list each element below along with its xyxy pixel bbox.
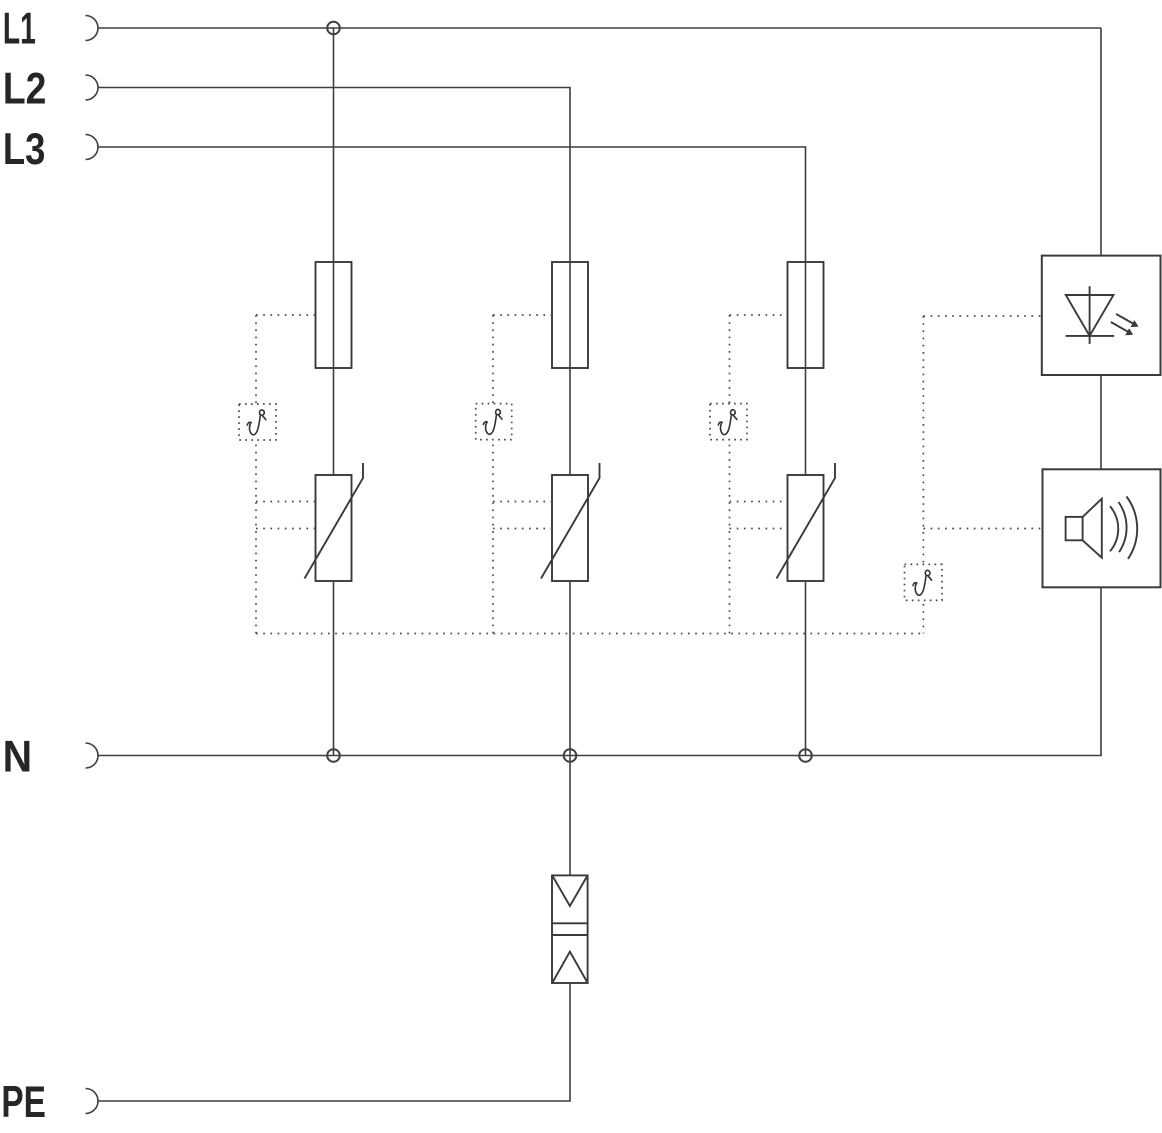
wire L2 horizontal: [98, 87, 571, 89]
wire F2 to varistor RV2: [569, 368, 571, 475]
speaker driver rect: [1066, 517, 1083, 540]
dotted signal link branch 3: vertical: [729, 315, 731, 634]
wire RV2 to N: [569, 581, 571, 756]
wire RV1 to N: [333, 581, 335, 756]
dotted signal link branch 3: stub to varistor upper: [730, 501, 788, 503]
svg-text:L1: L1: [3, 5, 36, 54]
wire branch3 L3 to fuse F3: [805, 147, 807, 262]
speaker cone: [1083, 499, 1102, 558]
varistor RV1: [305, 463, 364, 581]
wire speaker box to N: [1100, 587, 1102, 755]
terminal L3: [86, 134, 99, 159]
dotted signal link branch 1: top stub: [256, 314, 316, 316]
terminal L1: [86, 16, 98, 41]
sound arc 1: [1110, 506, 1118, 551]
varistor RV3: [777, 463, 836, 581]
svg-text:N: N: [3, 733, 32, 782]
spark gap N-PE body: [552, 875, 588, 983]
wire inside fuse F1: [333, 262, 335, 368]
acoustic alarm box H2: [1043, 469, 1161, 587]
thermal disconnect glyph branch 3: [718, 410, 737, 435]
svg-text:PE: PE: [1, 1078, 46, 1127]
thermal disconnect glyph branch 2: [483, 409, 502, 434]
spark gap divider line lower: [552, 934, 588, 936]
fuse F1: [316, 262, 352, 368]
wire inside fuse F2: [569, 262, 571, 368]
thermal disconnect box branch 1: [239, 404, 276, 440]
LED indicator box H1: [1042, 256, 1161, 375]
wire L1 horizontal: [98, 27, 1101, 29]
wire L3 horizontal: [98, 146, 806, 148]
LED symbol: cathode bar: [1066, 335, 1115, 337]
thermal disconnect box branch 2: [476, 404, 512, 440]
dotted signal link branch 1: stub to varistor upper: [256, 501, 316, 503]
terminal PE: [86, 1089, 99, 1114]
junction on N at branch 3: [799, 749, 812, 762]
spark gap lower electrode: [553, 952, 587, 982]
dotted signal link branch 3: top stub: [730, 314, 788, 316]
junction on N at branch 1: [327, 749, 340, 762]
varistor RV2: [541, 463, 600, 581]
wire F3 to varistor RV3: [805, 368, 807, 475]
dotted signal link remote: vertical: [922, 316, 924, 634]
sound arc 3: [1127, 497, 1138, 559]
wire spark gap to PE: [569, 984, 571, 1102]
thermal disconnect box branch 3: [710, 404, 747, 440]
terminal N: [86, 743, 98, 768]
svg-text:L3: L3: [3, 125, 46, 174]
dotted signal link branch 2: stub to varistor upper: [493, 501, 552, 503]
dotted signal link branch 1: vertical: [255, 315, 257, 634]
dotted signal link branch 1: stub to varistor lower: [256, 528, 316, 530]
wire LED box to speaker box: [1100, 375, 1102, 469]
LED symbol: vertical lead: [1089, 286, 1091, 344]
wire N to spark gap: [569, 756, 571, 876]
sound arc 2: [1119, 502, 1127, 552]
thermal disconnect box remote: [905, 564, 943, 600]
dotted signal link branch 2: vertical: [492, 315, 494, 634]
wire inside fuse F3: [805, 262, 807, 368]
junction on L1 at branch 1: [327, 22, 340, 35]
wire F1 to varistor RV1: [333, 368, 335, 475]
fuse F2: [552, 262, 588, 368]
dotted signal link branch 2: stub to varistor lower: [493, 528, 552, 530]
thermal disconnect glyph branch 1: [247, 410, 266, 435]
wire branch2 L2 to fuse F2: [569, 88, 571, 263]
LED symbol: triangle: [1066, 295, 1114, 336]
terminal L2: [86, 75, 98, 100]
wire L1 to LED indicator box: [1100, 28, 1102, 256]
dotted signal bus bottom: [256, 633, 923, 635]
dotted signal link remote: stub to speaker box: [923, 528, 1042, 530]
junction on N at branch 2: [564, 749, 577, 762]
spark gap divider line upper: [552, 922, 588, 924]
svg-text:L2: L2: [3, 64, 47, 113]
dotted signal link branch 2: top stub: [493, 314, 552, 316]
dotted signal link remote: stub to LED box: [923, 315, 1041, 317]
wire N horizontal: [98, 755, 1102, 757]
spark gap upper electrode V: [553, 876, 587, 906]
wire RV3 to N: [805, 581, 807, 756]
thermal disconnect glyph remote: [913, 570, 932, 595]
wire branch1 L1 to fuse F1: [333, 28, 335, 262]
LED symbol: emission arrow 2: [1111, 322, 1133, 335]
dotted signal link branch 3: stub to varistor lower: [730, 528, 788, 530]
fuse F3: [788, 262, 824, 368]
wire PE horizontal: [98, 1100, 571, 1102]
LED symbol: emission arrow 1: [1116, 314, 1138, 327]
